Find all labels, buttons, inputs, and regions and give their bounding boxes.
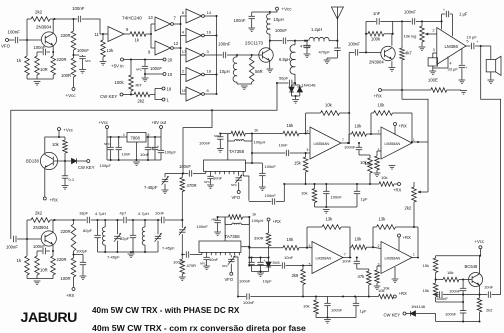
svg-text:6: 6 — [307, 129, 309, 133]
wire out to speaker — [475, 45, 491, 47]
capacitor C 100nF 5V bypass — [136, 60, 162, 78]
svg-text:15k: 15k — [423, 263, 429, 268]
inductor L 100uH tank I — [228, 134, 266, 145]
svg-text:7-45pF: 7-45pF — [162, 246, 175, 251]
ground diode clamp — [292, 100, 299, 104]
wire RX emitter node — [52, 245, 54, 256]
capacitor C 470pF shunt 1 — [300, 40, 312, 54]
terminal +Vcc mute — [475, 239, 484, 249]
ground vcc bypass — [79, 70, 86, 74]
wire filter top rail 2 — [132, 219, 159, 221]
svg-text:100µF: 100µF — [165, 150, 177, 155]
capacitor C 82pF tank1 — [83, 220, 101, 252]
svg-text:10 µF: 10 µF — [467, 35, 478, 40]
op-amp U5b LM358AN — [378, 127, 415, 159]
svg-text:10k: 10k — [381, 175, 387, 180]
svg-text:100k: 100k — [115, 80, 125, 85]
svg-text:VFO: VFO — [1, 44, 11, 49]
resistor R 10k fb op2 — [371, 103, 412, 142]
svg-text:33 µF: 33 µF — [448, 67, 459, 72]
svg-text:1k: 1k — [252, 212, 256, 217]
svg-text:390R: 390R — [254, 236, 264, 241]
terminal pin 19 — [162, 87, 172, 92]
ground key cap — [62, 186, 69, 190]
subtitle line 1 — [92, 306, 240, 315]
svg-text:1µF: 1µF — [360, 309, 368, 314]
svg-text:16: 16 — [207, 30, 212, 35]
wire bank gate 4 output — [204, 73, 217, 75]
svg-text:10k: 10k — [303, 304, 309, 309]
svg-text:10k: 10k — [52, 142, 60, 147]
capacitor C 4p7 series — [117, 211, 133, 224]
capacitor C 10nF phase I — [252, 143, 310, 157]
svg-text:10nF: 10nF — [279, 143, 289, 148]
wire driver input bus — [180, 16, 182, 94]
ground filter — [128, 254, 135, 258]
terminal +RX preamp — [66, 288, 75, 299]
wire TA1 tank left vert — [227, 134, 229, 161]
resistor R 15k phase I — [283, 123, 306, 136]
wire LM386 pin3 — [433, 48, 437, 53]
svg-text:220R: 220R — [57, 57, 67, 62]
resistor R 10k op4 plus — [375, 266, 390, 291]
wire PA collector — [269, 40, 271, 50]
label RIT — [136, 83, 143, 88]
svg-text:+5V in: +5V in — [111, 64, 124, 69]
wire TA2 dec gnd rail — [252, 270, 269, 272]
resistor R 220R RX emitter — [51, 256, 67, 279]
svg-text:+RX: +RX — [273, 219, 281, 224]
svg-text:1µF: 1µF — [361, 197, 369, 202]
trimmer C VFO Q — [222, 255, 235, 272]
resistor R 10k series bot — [350, 237, 374, 258]
resistor R 10k fb op1 — [306, 103, 351, 143]
svg-text:1k: 1k — [17, 258, 22, 263]
svg-text:1k: 1k — [254, 128, 258, 133]
svg-text:1: 1 — [123, 133, 125, 137]
svg-text:NPC: NPC — [136, 68, 142, 72]
svg-text:82pF: 82pF — [83, 228, 93, 233]
resistor R 1k tank Q — [225, 212, 256, 220]
inductor L 4.7uH tank2 — [138, 211, 149, 252]
wire PA base gnd rail — [237, 83, 252, 85]
capacitor C 100nF tank I — [199, 132, 228, 148]
svg-text:10µH: 10µH — [220, 69, 230, 74]
resistor R 100k preamp fb — [365, 32, 394, 42]
svg-text:+: + — [477, 40, 479, 44]
wire cap to preamp base — [359, 51, 381, 53]
terminal +8V out — [152, 120, 167, 129]
capacitor C 10nF TA2 pin2 — [200, 255, 219, 265]
resistor R 1k tank I — [228, 128, 258, 136]
wire collector to vol cap — [393, 20, 412, 22]
ground TA2 dec — [257, 273, 264, 277]
gate U1c inverter — [148, 41, 179, 55]
svg-text:220R: 220R — [61, 33, 71, 38]
resistor R 2k2 feedback — [27, 10, 56, 22]
svg-text:+Vcc: +Vcc — [64, 128, 73, 133]
capacitor C 100pF RX vcc — [74, 249, 88, 276]
wire vcc node — [74, 54, 80, 56]
svg-text:100nF: 100nF — [173, 260, 185, 265]
resistor R 10R — [35, 52, 48, 79]
resistor R 10k mid rail — [301, 184, 317, 207]
svg-text:17: 17 — [182, 49, 187, 54]
svg-text:220R: 220R — [61, 229, 71, 234]
ground 100pF — [80, 276, 87, 280]
capacitor C 100nF vol coupling — [404, 10, 416, 25]
wire LM386 top pin a — [441, 14, 443, 30]
wire op1 out — [341, 134, 350, 144]
svg-text:4.7µH: 4.7µH — [138, 211, 149, 216]
pins TA7358 Q — [207, 252, 240, 255]
svg-text:82pF: 82pF — [120, 236, 130, 241]
wire op3 plus — [303, 265, 312, 267]
resistor R 2k2 RX fb — [27, 211, 56, 223]
svg-text:2k2: 2k2 — [35, 10, 43, 15]
svg-text:3k9: 3k9 — [292, 273, 299, 278]
capacitor C 1nF preamp fb — [366, 11, 393, 25]
wire ground rail — [27, 78, 53, 80]
wire TA2 pin8 down long — [235, 255, 238, 296]
op-amp U7a LM358AN — [309, 242, 346, 274]
terminal pin 10 — [163, 72, 173, 77]
svg-text:18k: 18k — [447, 270, 453, 275]
svg-text:7-45pF: 7-45pF — [144, 185, 158, 190]
capacitor C NPC reg out — [152, 137, 158, 160]
svg-text:10nF: 10nF — [284, 255, 294, 260]
svg-text:10nF: 10nF — [155, 211, 165, 216]
svg-text:+: + — [157, 145, 159, 149]
wire op2 minus — [371, 133, 381, 135]
inductor L 6.8uH — [279, 41, 295, 83]
wire LM386 out — [466, 40, 471, 47]
terminal +RX key out — [43, 197, 58, 203]
svg-text:40m 5W CW TRX - with PHASE DC: 40m 5W CW TRX - with PHASE DC RX — [92, 306, 240, 315]
terminal pin 20 — [163, 58, 173, 63]
wire mute feed corner — [402, 90, 428, 142]
svg-text:5: 5 — [307, 148, 309, 152]
wire bank gate 3 input — [181, 54, 187, 56]
wire bank gate 1 input — [181, 15, 187, 17]
svg-text:2k2: 2k2 — [138, 99, 145, 104]
wire TA1 pin9 down — [243, 174, 249, 201]
wire key to mute rail — [435, 314, 437, 322]
capacitor C 100nF PA coupling — [218, 42, 231, 59]
wire preamp fb column left — [365, 21, 367, 52]
svg-text:100nF: 100nF — [243, 300, 255, 305]
svg-text:+Vcc: +Vcc — [66, 93, 77, 98]
resistor R 1k driver — [130, 32, 146, 43]
capacitor C 100nF emitter — [34, 45, 51, 55]
resistor R 3k9 shunt Q — [292, 264, 306, 297]
capacitor C 82pF tank2 — [120, 220, 136, 252]
svg-text:10µF: 10µF — [263, 279, 273, 284]
svg-text:+8V out: +8V out — [152, 120, 167, 125]
resistor R 15k mute lower — [423, 280, 438, 303]
svg-text:BC548: BC548 — [465, 264, 478, 269]
wire cap to buffer — [82, 19, 108, 35]
svg-text:6.8µH: 6.8µH — [279, 57, 290, 62]
capacitor C 100nF mute base — [449, 280, 466, 304]
wire TA1 tank right vert — [251, 132, 253, 163]
svg-text:100R: 100R — [61, 73, 71, 78]
diode D4 1N4148 key mute — [406, 304, 436, 316]
svg-text:18pF: 18pF — [79, 211, 89, 216]
svg-text:7: 7 — [342, 138, 344, 142]
inductor L 4.7uH tank1 — [95, 211, 106, 252]
wire VFO to cap — [9, 39, 15, 41]
wire bank gate 2 input — [181, 35, 187, 37]
wire op4 pin gnd — [394, 267, 396, 279]
wire cap to base — [227, 54, 262, 56]
svg-text:100nF: 100nF — [348, 42, 360, 47]
resistor R 100E — [428, 78, 461, 93]
svg-text:10nF: 10nF — [342, 259, 352, 264]
wire TA2 out node — [241, 246, 250, 248]
wire mute loop — [436, 301, 464, 303]
ground TA1 right cap — [259, 187, 266, 191]
wire op2 out — [411, 141, 428, 143]
wire bank gate 3 output — [204, 54, 216, 56]
wire preamp collector — [391, 21, 394, 45]
resistor R 12k buffer input — [101, 34, 114, 61]
svg-text:14: 14 — [207, 10, 212, 15]
ground volume pot — [419, 47, 426, 51]
svg-text:+Vcc: +Vcc — [475, 239, 484, 244]
capacitor C 100nF rail coupling — [72, 6, 85, 22]
svg-text:RIT: RIT — [136, 83, 143, 88]
terminal +5V in — [111, 58, 124, 69]
svg-text:100nF: 100nF — [33, 244, 45, 249]
svg-text:10k log: 10k log — [404, 34, 417, 39]
svg-text:+Vcc: +Vcc — [99, 120, 108, 125]
gate U1 driver 1 (pin 6 to 14) — [182, 9, 212, 23]
capacitor C 1uF mid rail — [354, 184, 368, 207]
svg-text:2N3904: 2N3904 — [33, 225, 49, 230]
svg-text:VFO: VFO — [232, 195, 241, 200]
terminal VFO Q — [225, 272, 234, 282]
svg-text:12: 12 — [174, 41, 179, 46]
svg-text:470pF: 470pF — [319, 50, 331, 55]
op-amp U2 LM386 — [437, 28, 466, 65]
resistor R 1k base — [17, 40, 30, 79]
wire vcc to choke — [269, 10, 277, 14]
ground op4 plus — [374, 286, 381, 290]
pins TA7358 I — [211, 171, 244, 174]
trimmer C 7-45pF tank1 — [107, 220, 121, 260]
resistor R 18k mute — [436, 270, 472, 282]
capacitor C 18pF — [79, 211, 90, 224]
resistor R 10k key base — [52, 137, 67, 161]
terminal +Vcc key — [58, 128, 73, 133]
wire 8V terminal — [160, 129, 162, 138]
svg-text:100nF: 100nF — [199, 141, 211, 146]
terminal CW KEY mute — [384, 312, 407, 318]
wire 470pF 2 gnd — [327, 58, 337, 60]
svg-text:NPC: NPC — [214, 134, 220, 138]
inductor L 1.2uH LPF — [309, 27, 329, 41]
svg-text:7-45pF: 7-45pF — [107, 255, 120, 260]
wire op4 out — [412, 256, 419, 258]
inductor L 100uH tank Q — [225, 217, 263, 225]
resistor R 10k down mid — [359, 155, 372, 184]
wire audio riser — [348, 52, 350, 113]
wire LM386 top pin b — [451, 14, 453, 36]
svg-text:10nF: 10nF — [140, 152, 150, 157]
component X bypass box — [428, 53, 438, 71]
svg-text:2k2: 2k2 — [405, 206, 412, 211]
capacitor C 100nF PA out coupling — [270, 28, 287, 44]
capacitor C 100nF mute low — [445, 302, 466, 322]
wire filter to TA7358 pin1 — [193, 171, 206, 173]
resistor R 13k fb op4 — [373, 217, 418, 257]
resistor R 13k fb op3 — [307, 217, 350, 257]
wire split vertical — [150, 24, 152, 48]
ground PA base — [241, 86, 248, 90]
resistor R 470R RX filter — [180, 255, 196, 277]
svg-text:1 µF: 1 µF — [459, 12, 468, 17]
resistor R 10k rail mid — [377, 175, 398, 186]
svg-text:3: 3 — [433, 48, 435, 52]
wire RX in to base — [17, 238, 41, 240]
wire filter bottom rail — [98, 251, 159, 253]
capacitor C 100nF to mixer Q — [173, 251, 189, 264]
wire op3 out — [343, 256, 358, 258]
svg-text:+RX: +RX — [50, 198, 58, 203]
wire to gate C — [151, 47, 155, 49]
svg-text:15k: 15k — [287, 123, 295, 128]
wire 18pF to filter — [91, 219, 99, 221]
svg-text:1: 1 — [413, 253, 415, 257]
svg-text:100nF: 100nF — [331, 308, 343, 313]
svg-text:LM358AN: LM358AN — [385, 256, 401, 260]
svg-text:15k: 15k — [294, 161, 302, 166]
resistor R 220R RX load — [61, 220, 76, 258]
capacitor C 10nF bot — [342, 258, 360, 270]
ground 100E — [460, 91, 467, 95]
wire mute collector rail — [436, 255, 481, 257]
ground regulator — [133, 162, 140, 166]
wire collector to rail — [52, 19, 54, 34]
wire PA node to RX preamp long line — [11, 83, 277, 239]
wire reg gnd rail — [107, 137, 161, 161]
svg-text:10R: 10R — [40, 67, 48, 72]
svg-text:100nF: 100nF — [239, 279, 251, 284]
svg-text:TA7358: TA7358 — [229, 149, 245, 154]
svg-text:+RX: +RX — [66, 293, 74, 298]
svg-text:CW KEY: CW KEY — [100, 94, 117, 99]
svg-text:2: 2 — [378, 244, 380, 248]
wire mute emitter — [479, 285, 481, 294]
wire mid rail gnd — [315, 206, 358, 208]
wire reg rail right — [146, 136, 161, 138]
svg-text:100nF: 100nF — [265, 164, 277, 169]
svg-text:3: 3 — [378, 148, 380, 152]
svg-text:47k: 47k — [358, 274, 366, 279]
svg-text:5: 5 — [309, 263, 311, 267]
ground tank cap I — [217, 149, 224, 153]
capacitor C 100nF TA2 dec — [239, 258, 255, 284]
wire mid filter tap — [183, 109, 213, 172]
svg-text:100µH: 100µH — [254, 140, 266, 145]
wire mute collector — [479, 256, 481, 274]
wire coupling node — [181, 253, 185, 255]
wire base node up to 2k2 — [26, 19, 28, 40]
resistor R 10k phase Q — [283, 237, 307, 250]
wire filter node mid — [165, 172, 188, 175]
svg-text:10nF: 10nF — [213, 176, 223, 181]
svg-text:LM386: LM386 — [445, 44, 459, 49]
resistor R 4k7 — [400, 21, 413, 90]
wire tank to 15k — [252, 133, 283, 135]
svg-text:10k: 10k — [325, 103, 333, 108]
resistor R 220R emitter — [51, 56, 67, 79]
svg-text:NPC: NPC — [204, 180, 210, 184]
wire speaker drop — [490, 46, 492, 60]
resistor R 10k op2 plus — [365, 151, 382, 173]
IC U6 TA7358 mixer Q — [199, 234, 241, 252]
resistor R 10k rail bot — [377, 288, 394, 299]
svg-text:+: + — [466, 66, 468, 70]
transistor Q1 2N3904 TX osc buffer — [36, 25, 57, 48]
svg-text:10k: 10k — [301, 191, 307, 196]
terminal +Vcc osc — [66, 88, 77, 99]
svg-text:100nF: 100nF — [72, 6, 85, 11]
wire op2 out to pot wiper — [417, 142, 428, 194]
wire filter top rail 1 — [98, 219, 119, 221]
resistor R 2k2 mute — [477, 295, 493, 322]
terminal +Vcc reg — [99, 120, 109, 129]
wire to TA2 pin1 — [190, 252, 202, 254]
terminal pin 1 — [162, 98, 170, 103]
gate U1 driver 4 (pin 2 to 18) — [182, 68, 212, 82]
ground preamp emitter — [389, 68, 396, 72]
capacitor C 10nF TA1 pin2 — [204, 174, 223, 184]
IC U3 7808 regulator — [123, 133, 150, 143]
svg-text:4.7µH: 4.7µH — [95, 211, 106, 216]
wiper volume pot — [425, 33, 437, 36]
svg-text:100E: 100E — [428, 78, 438, 83]
resistor R 15k shunt I — [294, 152, 308, 184]
svg-text:13k: 13k — [379, 217, 387, 222]
capacitor C 10uF TA2 dec — [257, 258, 272, 284]
svg-text:10k: 10k — [355, 124, 363, 129]
svg-text:15k: 15k — [423, 288, 429, 293]
resistor R 100k key pullup — [115, 60, 134, 95]
svg-text:100nF: 100nF — [6, 245, 18, 250]
svg-text:4: 4 — [450, 62, 452, 66]
wire BD138 base — [54, 160, 66, 162]
svg-text:10k: 10k — [378, 288, 384, 293]
wire gate A out — [124, 33, 130, 35]
resistor R 47k down bot — [357, 269, 371, 297]
svg-text:CW KEY: CW KEY — [78, 165, 95, 170]
wire op4 minus — [373, 247, 381, 248]
svg-text:LM358AN: LM358AN — [316, 256, 332, 260]
wire RX rail right — [56, 219, 86, 221]
svg-text:100µH: 100µH — [252, 218, 264, 223]
capacitor C 10nF reg out — [140, 137, 156, 160]
wire op2 vcc — [394, 126, 396, 135]
terminal CW KEY drive — [100, 93, 123, 99]
transistor Q2 2SC1173 PA — [245, 41, 273, 63]
capacitor C 10nF mute audio — [480, 285, 501, 298]
svg-text:4k7: 4k7 — [405, 51, 412, 56]
trimmer C 7-45pF coupling — [162, 220, 186, 255]
ground TA2 pin2 — [203, 266, 210, 270]
wire preamp emitter — [391, 61, 393, 67]
